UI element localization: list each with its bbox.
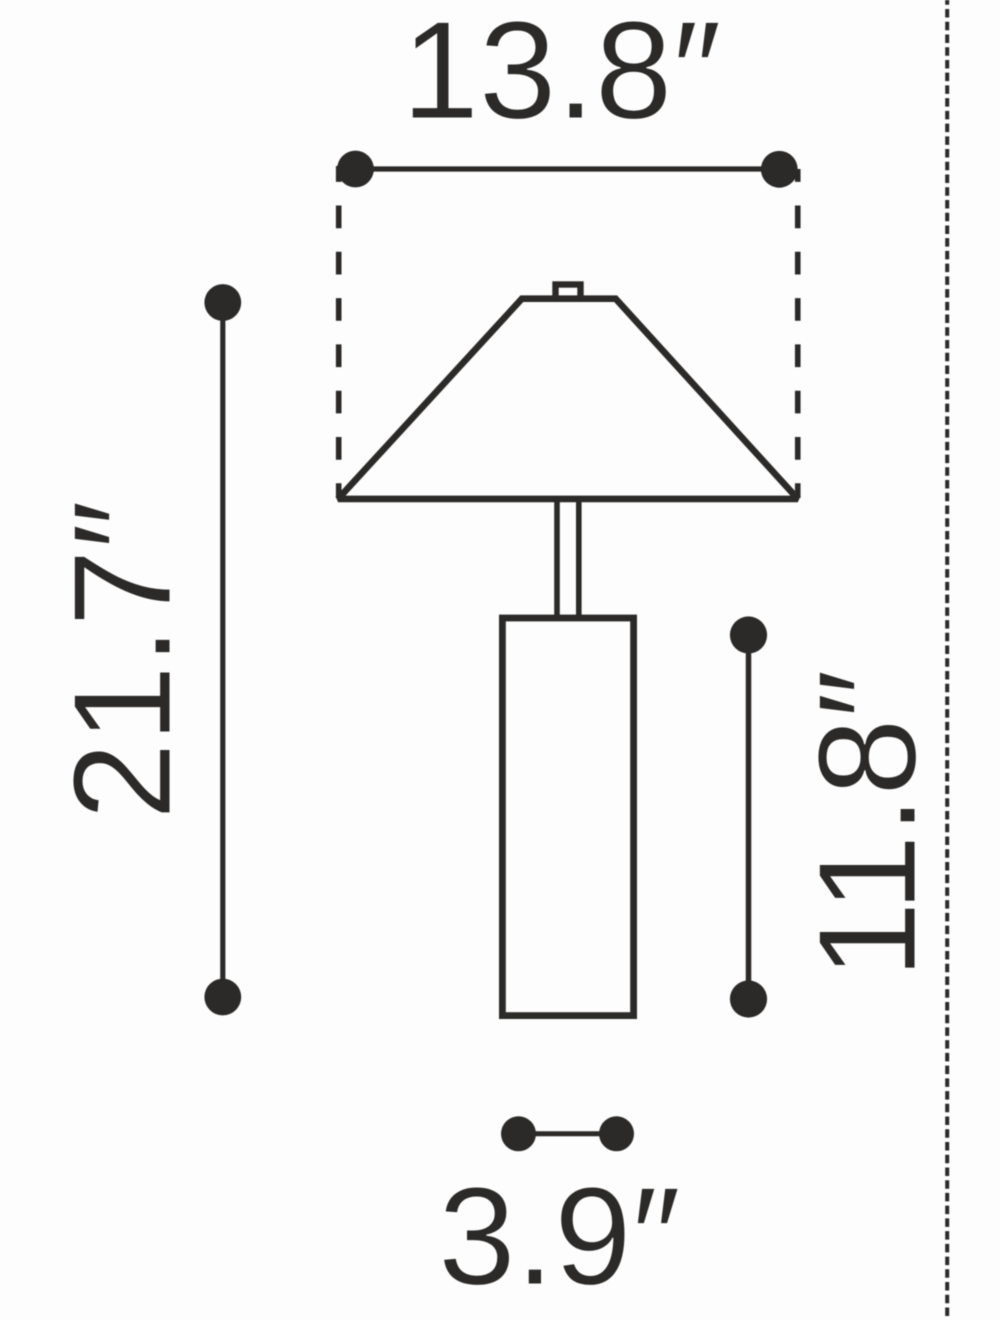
svg-text:3.9″: 3.9″ xyxy=(438,1159,680,1314)
top dimension left dot xyxy=(337,151,374,188)
svg-text:11.8″: 11.8″ xyxy=(790,669,945,978)
left dimension line (height 21.7") xyxy=(220,303,225,998)
dashed extension line left (width reference) xyxy=(336,166,342,498)
finial knob on top of shade xyxy=(556,285,581,299)
top dimension line (width 13.8") xyxy=(356,166,780,171)
right dimension bottom dot xyxy=(730,980,767,1017)
svg-text:13.8″: 13.8″ xyxy=(402,0,722,148)
left dimension bottom dot xyxy=(204,979,241,1016)
bottom dimension line (depth 3.9") xyxy=(519,1131,617,1136)
page divider dashed line (right edge) xyxy=(945,0,949,1320)
bottom dimension left dot xyxy=(501,1116,536,1151)
lamp stem left line xyxy=(554,499,560,618)
left dimension top dot xyxy=(204,284,241,321)
lamp base (rectangle body) xyxy=(502,618,633,1016)
right dimension line (base height 11.8") xyxy=(746,635,752,999)
lamp shade (trapezoid) xyxy=(338,299,798,499)
dashed extension line right (width reference) xyxy=(795,169,801,498)
lamp stem right line xyxy=(576,499,582,618)
top dimension right dot xyxy=(761,151,798,188)
svg-text:21.7″: 21.7″ xyxy=(45,500,200,820)
right dimension top dot xyxy=(730,616,767,653)
bottom dimension right dot xyxy=(599,1116,634,1151)
